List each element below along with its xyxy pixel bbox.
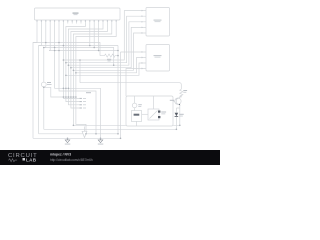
wire pin1 chain	[33, 24, 37, 139]
wire coil bottom	[136, 121, 138, 126]
wire L3	[44, 48, 114, 66]
coil mark	[134, 114, 140, 116]
box U3 label	[154, 55, 162, 58]
switch label	[161, 112, 166, 115]
wire feeder2	[66, 16, 142, 63]
D1 label	[179, 114, 184, 117]
box U2 (top right)	[146, 8, 170, 37]
wire collector	[180, 95, 182, 97]
IC pins (stubs and dots)	[36, 20, 117, 24]
net label	[86, 92, 91, 93]
IC U1 label	[73, 13, 79, 16]
wire U3 pin4 to relay	[126, 69, 142, 97]
voltage source V1	[41, 82, 46, 87]
wire feeder1	[63, 11, 141, 60]
footer bar	[0, 150, 220, 165]
wire pin15 vertical	[98, 24, 100, 51]
resistor R2 vertical	[180, 89, 183, 97]
lamp label	[138, 104, 142, 107]
ground G2	[98, 138, 104, 144]
wire pin14 vertical	[93, 24, 95, 48]
wire feeder5	[73, 33, 141, 70]
wire pin12 chain	[66, 24, 86, 102]
wire diode down	[175, 117, 177, 129]
V1 label	[47, 82, 52, 85]
svg-text:mlopez / NV3: mlopez / NV3	[50, 153, 71, 157]
wire bottom rail A	[73, 124, 179, 126]
wire pin7 bus line	[63, 24, 79, 99]
Q1 label	[170, 100, 174, 101]
wire L4	[49, 50, 118, 52]
wire pin5 vertical	[55, 24, 101, 139]
net flags	[79, 98, 86, 109]
wire pin19 chain	[76, 24, 116, 134]
wire feeder3	[68, 22, 141, 65]
wire L1 to R1	[33, 43, 100, 56]
wire bottom rail D (gnd rail)	[33, 137, 121, 139]
coil box	[131, 111, 141, 122]
svg-text:http://circuitlab.com/c/8E7m6h: http://circuitlab.com/c/8E7m6h	[50, 158, 93, 162]
wire pin18 chain	[73, 24, 111, 126]
wire bottom rail B	[44, 128, 177, 130]
box U2 pins	[141, 10, 146, 34]
wire pin3 chain (V1 net)	[44, 24, 46, 83]
wire coil to switch	[142, 113, 148, 115]
wire pin2 chain	[39, 24, 42, 134]
R1 label	[107, 59, 111, 62]
wire pin16 chain	[68, 24, 103, 105]
wire base Q1	[173, 100, 176, 102]
diode D1	[175, 113, 179, 117]
resistor R1	[100, 54, 118, 57]
power arrow node	[82, 127, 87, 138]
R2 label	[183, 90, 187, 93]
switch pins dark	[158, 111, 160, 119]
IC U1	[35, 8, 121, 20]
box U2 label	[154, 20, 162, 23]
wire bottom rail C	[39, 133, 118, 135]
switch top wire	[153, 96, 155, 109]
wire top feed	[80, 83, 181, 90]
relay module box K1	[126, 96, 173, 126]
wire U3 pin1 feed	[121, 52, 142, 138]
wire pin4 chain	[49, 24, 50, 51]
wire feeder7 to U3 pin3	[66, 63, 142, 75]
switch box S1	[148, 109, 159, 120]
junction dots	[43, 42, 181, 139]
ground G1	[65, 138, 71, 144]
switch lever	[150, 111, 158, 119]
box U3 pins	[141, 51, 146, 69]
box U3 (mid right)	[146, 45, 170, 72]
wire pin13 vertical	[89, 24, 91, 46]
wire emitter to diode	[176, 105, 179, 125]
svg-text:LAB: LAB	[26, 158, 37, 163]
wire feeder6 to U3 pin2	[76, 58, 142, 73]
wire dotted bus tie	[44, 87, 76, 97]
wire feeder4	[71, 27, 142, 67]
wire L2	[39, 46, 118, 134]
lamp LED circle	[132, 103, 137, 108]
wire pin6 vertical	[59, 24, 96, 134]
wire feed stub	[79, 60, 81, 83]
transistor Q1	[175, 97, 181, 106]
wire pin17 chain	[71, 24, 108, 109]
